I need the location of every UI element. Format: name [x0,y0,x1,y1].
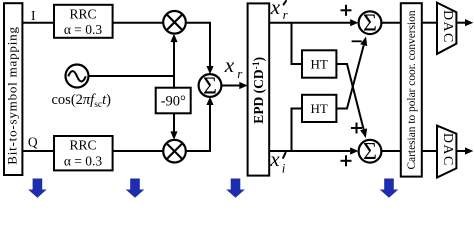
svg-text:RRC: RRC [69,6,96,21]
svg-text:x: x [269,147,280,171]
svg-text:i: i [282,161,286,176]
svg-text:x: x [270,0,281,19]
svg-text:α = 0.3: α = 0.3 [64,22,103,37]
svg-text:DAC: DAC [440,133,455,167]
svg-text:I: I [31,8,36,23]
svg-text:Σ: Σ [363,139,377,165]
svg-text:x: x [224,53,235,77]
svg-text:cos(2πfsct): cos(2πfsct) [52,92,112,110]
svg-text:Bit-to-symbol mapping: Bit-to-symbol mapping [4,26,19,165]
svg-text:Cartesian to polar coor. conve: Cartesian to polar coor. conversion [406,10,418,169]
svg-text:α = 0.3: α = 0.3 [64,154,103,169]
svg-text:HT: HT [311,101,328,116]
svg-text:RRC: RRC [69,138,96,153]
svg-text:Σ: Σ [203,73,217,99]
svg-text:-90°: -90° [161,94,186,110]
svg-text:DAC: DAC [440,10,455,44]
svg-text:Q: Q [28,134,38,149]
svg-text:Σ: Σ [363,11,377,37]
svg-text:HT: HT [311,57,328,72]
